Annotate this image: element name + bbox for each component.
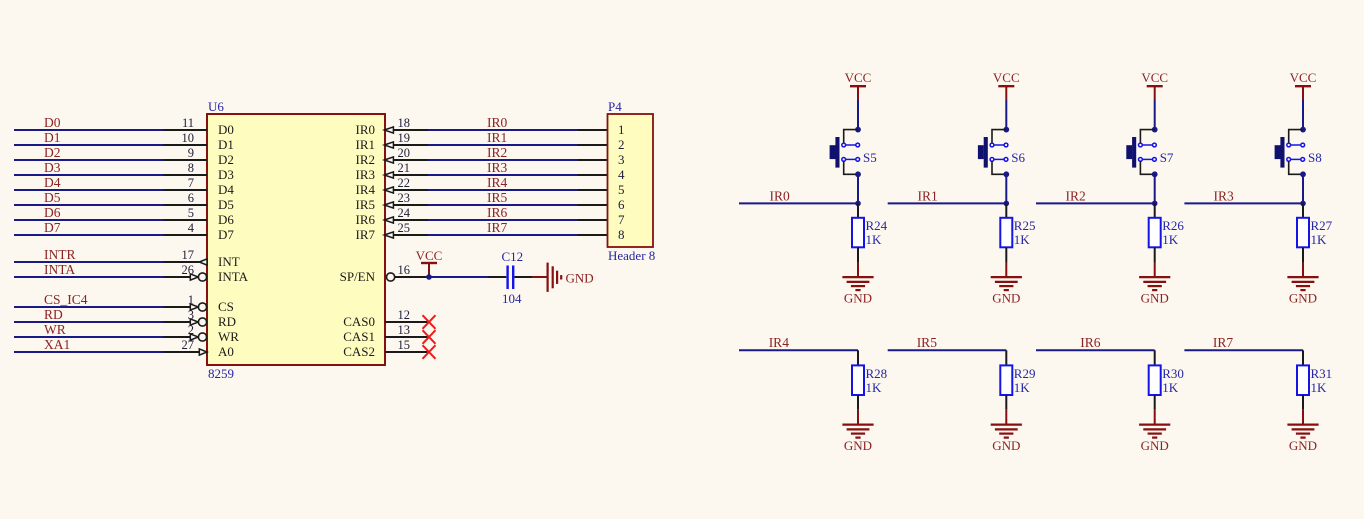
svg-text:CAS1: CAS1 [343, 329, 375, 344]
pin 19 (IR1) input arrow [384, 142, 393, 148]
pin number 4 [188, 221, 195, 235]
resistor R31 pin 2 stub [1302, 395, 1304, 410]
svg-text:D7: D7 [218, 227, 234, 242]
svg-text:R25: R25 [1014, 218, 1036, 233]
resistor R25 pin 2 stub [1005, 247, 1007, 262]
svg-text:U6: U6 [208, 99, 224, 114]
net label INTR [44, 247, 76, 262]
wire net IR1 [888, 202, 1007, 204]
header pin number 6 [618, 197, 625, 212]
wire R25 to GND [1005, 263, 1007, 277]
svg-text:25: 25 [398, 221, 411, 235]
designator R30 [1162, 366, 1184, 381]
wire VCC to S8 [1302, 100, 1304, 130]
svg-text:R26: R26 [1162, 218, 1184, 233]
header pin 6 stub [578, 204, 608, 206]
pin 26 (INTA) bubble [198, 273, 206, 281]
net label D3 [44, 160, 61, 175]
svg-text:WR: WR [218, 329, 239, 344]
pin name CAS1 [343, 329, 375, 344]
designator R29 [1014, 366, 1036, 381]
wire net D6 [14, 219, 164, 221]
resistor R25 pin 1 stub [1005, 203, 1007, 217]
net label IR4 [487, 175, 508, 190]
resistor R24 pin 1 stub [857, 203, 859, 217]
svg-text:D4: D4 [44, 175, 61, 190]
svg-text:1: 1 [618, 122, 625, 137]
net label XA1 [44, 337, 70, 352]
pin 27 (A0) input arrow [199, 349, 207, 355]
svg-text:S8: S8 [1308, 150, 1322, 165]
svg-text:Header 8: Header 8 [608, 248, 655, 263]
svg-text:23: 23 [398, 191, 411, 205]
pin name IR5 [356, 197, 376, 212]
svg-text:1K: 1K [1162, 232, 1179, 247]
pin 2 (WR) bubble [198, 333, 206, 341]
svg-text:IR4: IR4 [769, 335, 790, 350]
pin name CAS2 [343, 344, 375, 359]
power GND symbol (R25) [991, 277, 1022, 290]
svg-text:IR3: IR3 [1214, 188, 1235, 203]
wire net INTA [14, 276, 164, 278]
net label IR0 [770, 188, 791, 203]
wire R30 to GND [1154, 410, 1156, 424]
svg-text:1K: 1K [1014, 380, 1031, 395]
pin 20 (IR2) stub [393, 159, 428, 161]
svg-text:19: 19 [398, 131, 411, 145]
resistor R28 pin 1 stub [857, 350, 859, 365]
value 1K (R25) [1014, 232, 1031, 247]
svg-text:104: 104 [502, 291, 522, 306]
power GND symbol (R29) [991, 425, 1022, 438]
junction node S6 bottom [1003, 171, 1009, 177]
net label IR3 [487, 160, 508, 175]
net label D0 [44, 115, 61, 130]
svg-text:IR6: IR6 [1080, 335, 1101, 350]
pin number 9 [188, 146, 194, 160]
svg-text:17: 17 [182, 248, 195, 262]
svg-text:CAS0: CAS0 [343, 314, 375, 329]
power label GND (R25) [992, 290, 1020, 305]
power label VCC (S5) [845, 70, 872, 85]
svg-text:GND: GND [1141, 290, 1169, 305]
pin 2 (WR) input arrow [190, 334, 198, 340]
power GND symbol (C12) [548, 263, 562, 292]
svg-text:8: 8 [618, 227, 625, 242]
designator R27 [1311, 218, 1333, 233]
net label RD [44, 307, 63, 322]
pin 16 (SP/EN) stub [395, 276, 429, 278]
header pin number 3 [618, 152, 625, 167]
pin 24 (IR6) stub [393, 219, 428, 221]
pin number 1 [188, 293, 194, 307]
svg-text:IR2: IR2 [356, 152, 376, 167]
svg-text:IR0: IR0 [770, 188, 791, 203]
power label GND (R31) [1289, 438, 1317, 453]
wire net IR0 [739, 202, 858, 204]
pin 8 (D3) stub [164, 174, 208, 176]
svg-text:D3: D3 [44, 160, 61, 175]
wire R29 to GND [1005, 410, 1007, 424]
power VCC symbol (SP/EN) [421, 263, 437, 275]
svg-text:GND: GND [1289, 290, 1317, 305]
svg-text:RD: RD [44, 307, 63, 322]
header pin 8 stub [578, 234, 608, 236]
value 8259 [208, 366, 234, 381]
pin number 7 [188, 176, 194, 190]
wire R24 to GND [857, 263, 859, 277]
svg-text:1K: 1K [866, 232, 883, 247]
net label D4 [44, 175, 61, 190]
power label GND (R28) [844, 438, 872, 453]
pin 21 (IR3) stub [393, 174, 428, 176]
pin 21 (IR3) input arrow [384, 172, 393, 178]
net label IR1 [487, 130, 507, 145]
net label INTA [44, 262, 75, 277]
pin 23 (IR5) stub [393, 204, 428, 206]
pin 16 (SP/EN) bubble [387, 273, 395, 281]
power label VCC (S6) [993, 70, 1020, 85]
svg-text:D1: D1 [218, 137, 234, 152]
pin 7 (D4) stub [164, 189, 208, 191]
svg-text:IR5: IR5 [356, 197, 376, 212]
pin number 22 [398, 176, 411, 190]
svg-text:XA1: XA1 [44, 337, 70, 352]
net label WR [44, 322, 66, 337]
power label GND (R29) [992, 438, 1020, 453]
pin 13 (CAS1) stub [385, 336, 429, 338]
svg-text:INTA: INTA [44, 262, 75, 277]
pin number 24 [398, 206, 411, 220]
pin 3 (RD) input arrow [190, 319, 198, 325]
wire net D3 [14, 174, 164, 176]
pin name D0 [218, 122, 234, 137]
svg-text:7: 7 [188, 176, 194, 190]
wire S7 to node IR2 [1154, 174, 1156, 203]
capacitor C12 plates [508, 266, 514, 290]
power VCC symbol (S6) [998, 86, 1014, 100]
svg-text:INT: INT [218, 254, 240, 269]
power label GND (R24) [844, 290, 872, 305]
pin name A0 [218, 344, 234, 359]
power label GND (C12) [566, 270, 594, 285]
value 1K (R31) [1311, 380, 1328, 395]
svg-text:IR4: IR4 [356, 182, 376, 197]
pin 2 (WR) stub [164, 336, 191, 338]
pin 26 (INTA) input arrow [190, 274, 198, 280]
pin 26 (INTA) stub [164, 276, 191, 278]
svg-text:D7: D7 [44, 220, 61, 235]
pushbutton switch S8 [1275, 130, 1305, 175]
svg-text:D1: D1 [44, 130, 61, 145]
power GND symbol (R31) [1287, 425, 1318, 438]
svg-text:VCC: VCC [993, 70, 1020, 85]
svg-text:D4: D4 [218, 182, 234, 197]
svg-text:D6: D6 [44, 205, 61, 220]
svg-text:GND: GND [566, 270, 594, 285]
designator U6 [208, 99, 224, 114]
net label IR6 [1080, 335, 1101, 350]
pin 5 (D6) stub [164, 219, 208, 221]
pin name WR [218, 329, 239, 344]
svg-text:1K: 1K [1162, 380, 1179, 395]
pin name INT [218, 254, 240, 269]
net label IR6 [487, 205, 508, 220]
resistor R26 pin 2 stub [1154, 247, 1156, 262]
svg-text:IR3: IR3 [356, 167, 376, 182]
net label IR5 [487, 190, 508, 205]
wire SP/EN to C12 [429, 276, 488, 278]
wire S6 to node IR1 [1005, 174, 1007, 203]
wire net IR7 (U6 to P4) [428, 234, 578, 236]
designator P4 [608, 99, 622, 114]
pin 17 (INT) output arrow [199, 259, 207, 265]
wire net D1 [14, 144, 164, 146]
designator R24 [866, 218, 888, 233]
pin 25 (IR7) input arrow [384, 232, 393, 238]
svg-text:GND: GND [1289, 438, 1317, 453]
resistor R30 pin 2 stub [1154, 395, 1156, 410]
designator S7 [1160, 150, 1174, 165]
pin 15 (CAS2) stub [385, 351, 429, 353]
resistor R24 pin 2 stub [857, 247, 859, 262]
resistor R27 [1297, 218, 1309, 248]
wire net IR5 (U6 to P4) [428, 204, 578, 206]
svg-text:A0: A0 [218, 344, 234, 359]
svg-text:R28: R28 [866, 366, 888, 381]
wire net D4 [14, 189, 164, 191]
power GND symbol (R27) [1287, 277, 1318, 290]
wire VCC to S7 [1154, 100, 1156, 130]
junction node IR0 [855, 201, 861, 207]
svg-text:IR3: IR3 [487, 160, 508, 175]
svg-text:20: 20 [398, 146, 411, 160]
power VCC symbol (S8) [1295, 86, 1311, 100]
wire net IR0 (U6 to P4) [428, 129, 578, 131]
header pin 7 stub [578, 219, 608, 221]
resistor R25 [1000, 218, 1012, 248]
pin name D2 [218, 152, 234, 167]
wire S8 to node IR3 [1302, 174, 1304, 203]
svg-text:R24: R24 [866, 218, 888, 233]
wire R26 to GND [1154, 263, 1156, 277]
power label VCC (S8) [1290, 70, 1317, 85]
svg-text:S6: S6 [1011, 150, 1025, 165]
pin number 21 [398, 161, 411, 175]
net label IR5 [917, 335, 938, 350]
net label D5 [44, 190, 61, 205]
wire net D2 [14, 159, 164, 161]
pin 1 (CS) input arrow [190, 304, 198, 310]
pin number 11 [182, 116, 194, 130]
svg-text:C12: C12 [502, 249, 524, 264]
designator S5 [863, 150, 877, 165]
pin name INTA [218, 269, 249, 284]
svg-text:INTR: INTR [44, 247, 76, 262]
resistor R27 pin 2 stub [1302, 247, 1304, 262]
junction node S5 bottom [855, 171, 861, 177]
svg-text:22: 22 [398, 176, 411, 190]
header pin number 7 [618, 212, 625, 227]
net label IR0 [487, 115, 508, 130]
svg-text:5: 5 [618, 182, 625, 197]
wire net IR2 (U6 to P4) [428, 159, 578, 161]
pin number 12 [398, 308, 411, 322]
net label IR7 [1213, 335, 1234, 350]
svg-text:GND: GND [844, 438, 872, 453]
svg-text:GND: GND [992, 290, 1020, 305]
resistor R30 pin 1 stub [1154, 350, 1156, 365]
pin number 15 [398, 338, 411, 352]
svg-text:R31: R31 [1311, 366, 1333, 381]
svg-text:S5: S5 [863, 150, 877, 165]
pin 3 (RD) bubble [198, 318, 206, 326]
svg-text:21: 21 [398, 161, 411, 175]
designator C12 [502, 249, 524, 264]
pushbutton switch S7 [1126, 130, 1156, 175]
svg-text:S7: S7 [1160, 150, 1174, 165]
value 1K (R27) [1311, 232, 1328, 247]
svg-text:P4: P4 [608, 99, 622, 114]
wire VCC to S6 [1005, 100, 1007, 130]
svg-text:D6: D6 [218, 212, 234, 227]
resistor R28 [852, 365, 864, 395]
wire net IR2 [1036, 202, 1155, 204]
svg-text:R27: R27 [1311, 218, 1333, 233]
junction node S8 top [1300, 127, 1306, 133]
capacitor C12 pin 2 stub [514, 276, 532, 278]
pin 27 (A0) stub [164, 351, 201, 353]
svg-text:3: 3 [618, 152, 625, 167]
power GND symbol (R28) [842, 425, 873, 438]
value 1K (R29) [1014, 380, 1031, 395]
pin name IR1 [356, 137, 376, 152]
svg-text:13: 13 [398, 323, 411, 337]
svg-text:GND: GND [992, 438, 1020, 453]
pin 3 (RD) stub [164, 321, 191, 323]
wire net RD [14, 321, 164, 323]
svg-text:IR0: IR0 [487, 115, 508, 130]
svg-text:1K: 1K [1311, 232, 1328, 247]
svg-text:4: 4 [188, 221, 195, 235]
svg-text:6: 6 [188, 191, 194, 205]
pushbutton switch S5 [830, 130, 860, 175]
pin number 10 [182, 131, 195, 145]
pin name IR0 [356, 122, 376, 137]
svg-text:VCC: VCC [845, 70, 872, 85]
power VCC symbol (S5) [850, 86, 866, 100]
resistor R26 [1149, 218, 1161, 248]
resistor R24 [852, 218, 864, 248]
pin name IR2 [356, 152, 376, 167]
wire net IR4 (U6 to P4) [428, 189, 578, 191]
svg-text:WR: WR [44, 322, 66, 337]
svg-text:1K: 1K [1311, 380, 1328, 395]
svg-text:3: 3 [188, 308, 194, 322]
wire net CS_IC4 [14, 306, 164, 308]
pin name D7 [218, 227, 234, 242]
net label IR3 [1214, 188, 1235, 203]
power label VCC [416, 248, 443, 263]
wire S5 to node IR0 [857, 174, 859, 203]
pin 1 (CS) stub [164, 306, 191, 308]
value 1K (R26) [1162, 232, 1179, 247]
svg-text:IR7: IR7 [356, 227, 376, 242]
net label IR2 [1066, 188, 1086, 203]
designator S8 [1308, 150, 1322, 165]
svg-text:GND: GND [844, 290, 872, 305]
svg-text:R30: R30 [1162, 366, 1184, 381]
wire C12 to GND [532, 276, 548, 278]
wire R27 to GND [1302, 263, 1304, 277]
pin 10 (D1) stub [164, 144, 208, 146]
net label D2 [44, 145, 61, 160]
wire net D7 [14, 234, 164, 236]
svg-text:1K: 1K [1014, 232, 1031, 247]
power GND symbol (R30) [1139, 425, 1170, 438]
power GND symbol (R24) [842, 277, 873, 290]
svg-text:IR1: IR1 [918, 188, 938, 203]
net label IR7 [487, 220, 508, 235]
svg-text:IR6: IR6 [356, 212, 376, 227]
svg-text:SP/EN: SP/EN [340, 269, 376, 284]
svg-text:11: 11 [182, 116, 194, 130]
wire net XA1 [14, 351, 164, 353]
pin 12 (CAS0) stub [385, 321, 429, 323]
junction node S8 bottom [1300, 171, 1306, 177]
svg-text:18: 18 [398, 116, 411, 130]
svg-text:RD: RD [218, 314, 236, 329]
net label D1 [44, 130, 61, 145]
svg-text:D0: D0 [44, 115, 61, 130]
IC U6 8259 body [207, 114, 385, 365]
pin 17 (INT) stub [164, 261, 201, 263]
svg-text:IR7: IR7 [487, 220, 508, 235]
svg-text:IR6: IR6 [487, 205, 508, 220]
pin 23 (IR5) input arrow [384, 202, 393, 208]
svg-text:R29: R29 [1014, 366, 1036, 381]
value 1K (R28) [866, 380, 883, 395]
pin number 18 [398, 116, 411, 130]
resistor R30 [1149, 365, 1161, 395]
net label D7 [44, 220, 61, 235]
pin number 27 [182, 338, 195, 352]
resistor R31 pin 1 stub [1302, 350, 1304, 365]
wire R31 to GND [1302, 410, 1304, 424]
svg-text:CAS2: CAS2 [343, 344, 375, 359]
resistor R29 [1000, 365, 1012, 395]
value 1K (R24) [866, 232, 883, 247]
wire net WR [14, 336, 164, 338]
no-connect X (CAS2) [423, 345, 436, 359]
resistor R29 pin 2 stub [1005, 395, 1007, 410]
pin 6 (D5) stub [164, 204, 208, 206]
wire net INTR [14, 261, 164, 263]
pin number 26 [182, 263, 195, 277]
svg-text:IR1: IR1 [487, 130, 507, 145]
pin name D5 [218, 197, 234, 212]
svg-text:5: 5 [188, 206, 194, 220]
power label GND (R26) [1141, 290, 1169, 305]
pin name D1 [218, 137, 234, 152]
no-connect X (CAS0) [423, 315, 436, 329]
connector P4 body [608, 114, 654, 247]
resistor R27 pin 1 stub [1302, 203, 1304, 217]
svg-text:24: 24 [398, 206, 411, 220]
pin name SP/EN [340, 269, 376, 284]
power VCC symbol (S7) [1147, 86, 1163, 100]
svg-text:D2: D2 [44, 145, 61, 160]
